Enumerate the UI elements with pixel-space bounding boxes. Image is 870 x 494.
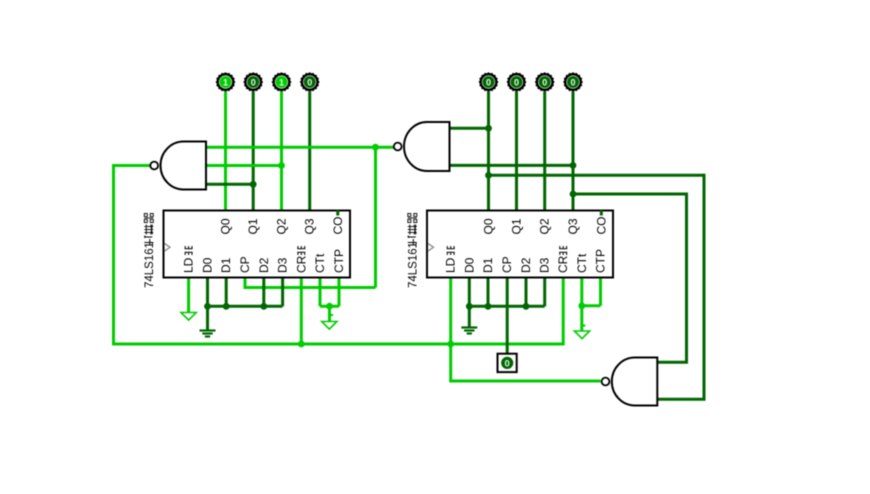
svg-text:Q1: Q1: [246, 218, 260, 234]
indicator probe P5 value 0 (U2 Q0): [479, 72, 499, 92]
wire U2 Q0 to P5: [487, 92, 490, 211]
wire U1 CTt-CTP bar: [320, 305, 339, 308]
tick on U2 CT stem: [582, 325, 586, 327]
indicator probe P1 value 1 (U1 Q0): [216, 72, 236, 92]
svg-text:Q2: Q2: [538, 218, 552, 234]
svg-text:LD: LD: [182, 257, 196, 273]
junction CR rail / U2 LD branch: [447, 341, 454, 348]
wire U1 CTt pin vertical: [319, 278, 322, 307]
wire U1 CTP pin vertical: [338, 278, 341, 307]
U1 label ji glyph: [144, 236, 153, 246]
svg-text:0: 0: [514, 77, 519, 87]
U2 label ji glyph: [408, 236, 417, 246]
wire U2 D bus bar: [469, 305, 544, 308]
wire U2 CT stem: [580, 306, 583, 331]
wire U1 D1 pin vertical: [225, 278, 228, 307]
svg-text:Q0: Q0: [219, 218, 233, 234]
svg-text:1: 1: [279, 77, 284, 87]
wire U3 output vertical: [112, 164, 115, 346]
NAND gate U5 (2-input): [602, 358, 658, 406]
wire U1 CT stem: [328, 306, 331, 321]
wire U5 top-input net into gate: [657, 361, 688, 364]
junction U2 D bus / D1: [485, 303, 492, 310]
U1 pin label CR-bar fei glyph: [297, 246, 305, 255]
svg-text:Q2: Q2: [275, 218, 289, 234]
wire U2 CP pin vertical to S1: [506, 278, 509, 361]
wire U1 Q2 to P3: [280, 92, 283, 211]
junction U3 mid input / Q2: [278, 162, 285, 169]
svg-text:Q1: Q1: [510, 218, 524, 234]
logic-high symbol T2 (U1 CTt/CTP): [322, 322, 337, 330]
wire U2 LD pin vertical to U5 output: [449, 278, 452, 383]
wire U2 Q1 to P6: [515, 92, 518, 211]
wire U2 CTt pin vertical: [580, 278, 583, 306]
wire U4 bottom input from U2 Q3: [450, 164, 574, 167]
wire U5 bottom-input net into gate: [657, 398, 705, 401]
wire U5 bottom-input net vertical: [703, 174, 706, 399]
svg-text:Q3: Q3: [566, 218, 580, 234]
wire U5 output horizontal to LD/CR net: [451, 380, 601, 383]
U2 label shu glyph: [408, 225, 417, 235]
junction U4 top input / U2 Q0: [485, 125, 492, 132]
wire CR rail horizontal: [114, 343, 564, 346]
indicator probe P3 value 1 (U1 Q2): [272, 72, 292, 92]
IC U2 74LS161 body: [427, 211, 613, 278]
wire U1 LD pin vertical: [187, 278, 190, 313]
wire U2 CTP pin vertical: [599, 278, 602, 306]
junction U2 D bus / D0: [466, 303, 473, 310]
svg-text:D2: D2: [257, 257, 271, 273]
wire U2 D3 pin vertical: [543, 278, 546, 307]
svg-text:D1: D1: [481, 257, 495, 273]
wire U1 Q3 to P4: [308, 92, 311, 211]
svg-text:D3: D3: [276, 257, 290, 273]
wire U2 CTt-CTP bar: [582, 304, 601, 307]
wire U4 top input from U2 Q0: [450, 127, 489, 130]
wire U4 output to U3 top input (node N1): [206, 146, 395, 149]
wire U1 D bus bar: [208, 305, 283, 308]
wire N1 vertical to CP rail: [374, 146, 377, 288]
junction U1 D bus / D2: [260, 303, 267, 310]
NAND gate U3 (3-input): [150, 142, 206, 190]
wire U5 top-input net vertical: [685, 193, 688, 363]
wire CP rail horizontal to U1 CP: [245, 286, 376, 289]
indicator probe P8 value 0 (U2 Q3): [563, 72, 583, 92]
svg-text:0: 0: [307, 77, 312, 87]
svg-text:1: 1: [223, 77, 228, 87]
wire U1 Q0 to P1: [224, 92, 227, 211]
U2 clock chevron: [428, 244, 434, 252]
IC U1 74LS161 body: [164, 211, 351, 278]
wire U5 top-input net horizontal from U2 Q3: [573, 193, 687, 196]
ground GND2 (U2 D bus): [461, 306, 477, 333]
junction U2 CT bar: [578, 302, 585, 309]
logic-high symbol T1 (U1 LD): [181, 313, 196, 321]
junction U4 bottom input / U2 Q3: [570, 162, 577, 169]
svg-text:CTP: CTP: [594, 249, 608, 273]
wire U3 bottom input from U1 Q1: [206, 183, 253, 186]
svg-text:0: 0: [251, 77, 256, 87]
wire U1 D3 pin vertical: [281, 278, 284, 307]
U1 label shu glyph: [144, 225, 153, 235]
wire U3 middle input from U1 Q2: [206, 164, 282, 167]
indicator probe P2 value 0 (U1 Q1): [243, 72, 263, 92]
svg-text:D1: D1: [219, 257, 233, 273]
indicator probe P4 value 0 (U1 Q3): [300, 72, 320, 92]
wire U2 D1 pin vertical: [487, 278, 490, 307]
ground GND1 (U1 D bus): [200, 306, 216, 336]
svg-text:D2: D2: [519, 257, 533, 273]
svg-text:CTP: CTP: [332, 249, 346, 273]
svg-text:74LS161: 74LS161: [408, 242, 420, 288]
svg-text:LD: LD: [444, 257, 458, 273]
wire U1 D0 pin vertical: [206, 278, 209, 307]
logic-high symbol T3 (U2 CTt/CTP): [574, 331, 589, 339]
svg-text:CR: CR: [556, 255, 570, 273]
svg-text:CTt: CTt: [313, 253, 327, 273]
svg-text:CO: CO: [331, 217, 345, 235]
svg-text:0: 0: [486, 77, 491, 87]
tick on U1 CT stem: [330, 314, 334, 316]
NAND gate U4 (2-input): [394, 122, 450, 171]
wire U3 output horizontal: [114, 164, 151, 167]
wire U2 Q2 to P7: [543, 92, 546, 211]
svg-text:CP: CP: [238, 256, 252, 273]
svg-text:D0: D0: [462, 257, 476, 273]
wire U2 Q3 to P8: [572, 92, 575, 211]
svg-text:0: 0: [542, 77, 547, 87]
wire U2 D0 pin vertical: [468, 278, 471, 307]
wire U2 CR pin vertical: [562, 278, 565, 346]
svg-text:Q3: Q3: [303, 218, 317, 234]
junction node N1 (U4 out / CP branch): [372, 144, 379, 151]
svg-text:CTt: CTt: [575, 253, 589, 273]
wire U5 bottom-input net horizontal from U2 Q0: [489, 174, 705, 177]
junction U2 D bus / D2: [523, 303, 530, 310]
wire U2 D2 pin vertical: [525, 278, 528, 307]
indicator probe P6 value 0 (U2 Q1): [507, 72, 527, 92]
junction U3 bottom input / Q1: [250, 181, 257, 188]
svg-text:D3: D3: [538, 257, 552, 273]
U1 label qi glyph: [144, 214, 153, 223]
U1 pin CO stub: [336, 210, 339, 215]
svg-text:0: 0: [505, 358, 510, 369]
junction U1 CT bar: [326, 303, 333, 310]
U2 pin label CR-bar fei glyph: [559, 246, 567, 255]
U2 label qi glyph: [408, 214, 417, 223]
svg-text:74LS161: 74LS161: [144, 242, 156, 288]
junction U1 D bus / D1: [223, 303, 230, 310]
svg-text:Q0: Q0: [482, 218, 496, 234]
indicator probe P7 value 0 (U2 Q2): [535, 72, 555, 92]
svg-text:D0: D0: [201, 257, 215, 273]
input source S1 value 0: [498, 354, 517, 372]
junction CR rail / U1 CR: [298, 341, 305, 348]
U2 pin label LD-bar fei glyph: [447, 246, 455, 255]
junction U1 D bus / D0: [204, 303, 211, 310]
wire U1 CR pin vertical: [300, 278, 303, 345]
wire U1 Q1 to P2: [252, 92, 255, 211]
U2 pin CO stub: [600, 210, 603, 215]
junction U5 net / U2 Q0: [485, 172, 492, 179]
svg-text:CO: CO: [594, 217, 608, 235]
junction U5 net / U2 Q3: [570, 191, 577, 198]
svg-text:0: 0: [570, 77, 575, 87]
wire U1 D2 pin vertical: [262, 278, 265, 307]
wire U1 CP pin stub: [244, 278, 247, 290]
svg-text:CP: CP: [500, 256, 514, 273]
svg-text:CR: CR: [294, 255, 308, 273]
U1 pin label LD-bar fei glyph: [185, 246, 193, 255]
U1 clock chevron: [165, 244, 171, 252]
